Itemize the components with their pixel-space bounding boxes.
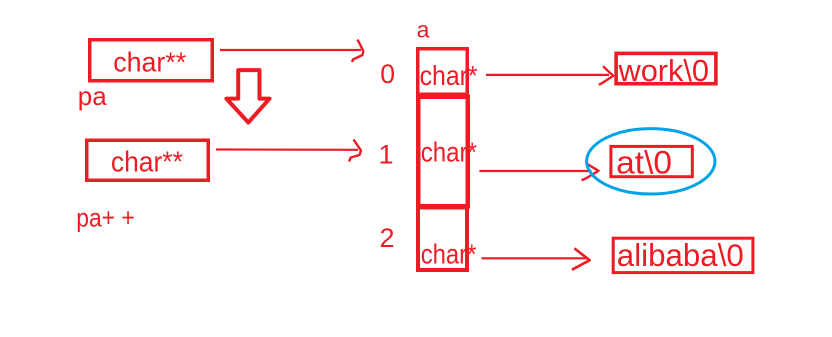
svg-text:a: a: [417, 17, 430, 43]
box pa (char** top): [90, 40, 213, 81]
array cell 1: [418, 97, 468, 207]
svg-text:0: 0: [380, 59, 395, 89]
block arrow down (pa to pa++): [226, 70, 269, 122]
array cell 2: [418, 208, 467, 271]
svg-text:char*: char*: [421, 136, 477, 167]
wire arrow from cell 2 to alibaba string: [482, 257, 587, 259]
wire arrow from pa++ box to cell 1: [216, 148, 358, 151]
box at\0: [611, 146, 692, 176]
wire arrow from pa box to cell 0: [220, 49, 361, 51]
wire arrow from cell 0 to work string: [486, 74, 609, 76]
svg-text:char*: char*: [421, 239, 477, 270]
svg-text:work\0: work\0: [618, 53, 709, 88]
svg-text:2: 2: [380, 223, 395, 253]
svg-text:1: 1: [379, 140, 394, 170]
box alibaba\0: [613, 238, 753, 272]
svg-text:alibaba\0: alibaba\0: [617, 237, 744, 273]
blue ellipse around at\0: [587, 129, 715, 194]
array cell 0: [418, 49, 468, 95]
wire arrow from cell 1 to at string: [479, 170, 591, 172]
box pa++ (char** bottom): [87, 140, 209, 180]
svg-text:at\0: at\0: [616, 145, 672, 181]
svg-text:char*: char*: [420, 60, 478, 91]
svg-text:pa+ +: pa+ +: [76, 202, 134, 232]
svg-text:char**: char**: [111, 147, 183, 179]
box work\0: [616, 53, 716, 83]
svg-text:pa: pa: [78, 81, 107, 111]
svg-text:char**: char**: [113, 46, 186, 77]
